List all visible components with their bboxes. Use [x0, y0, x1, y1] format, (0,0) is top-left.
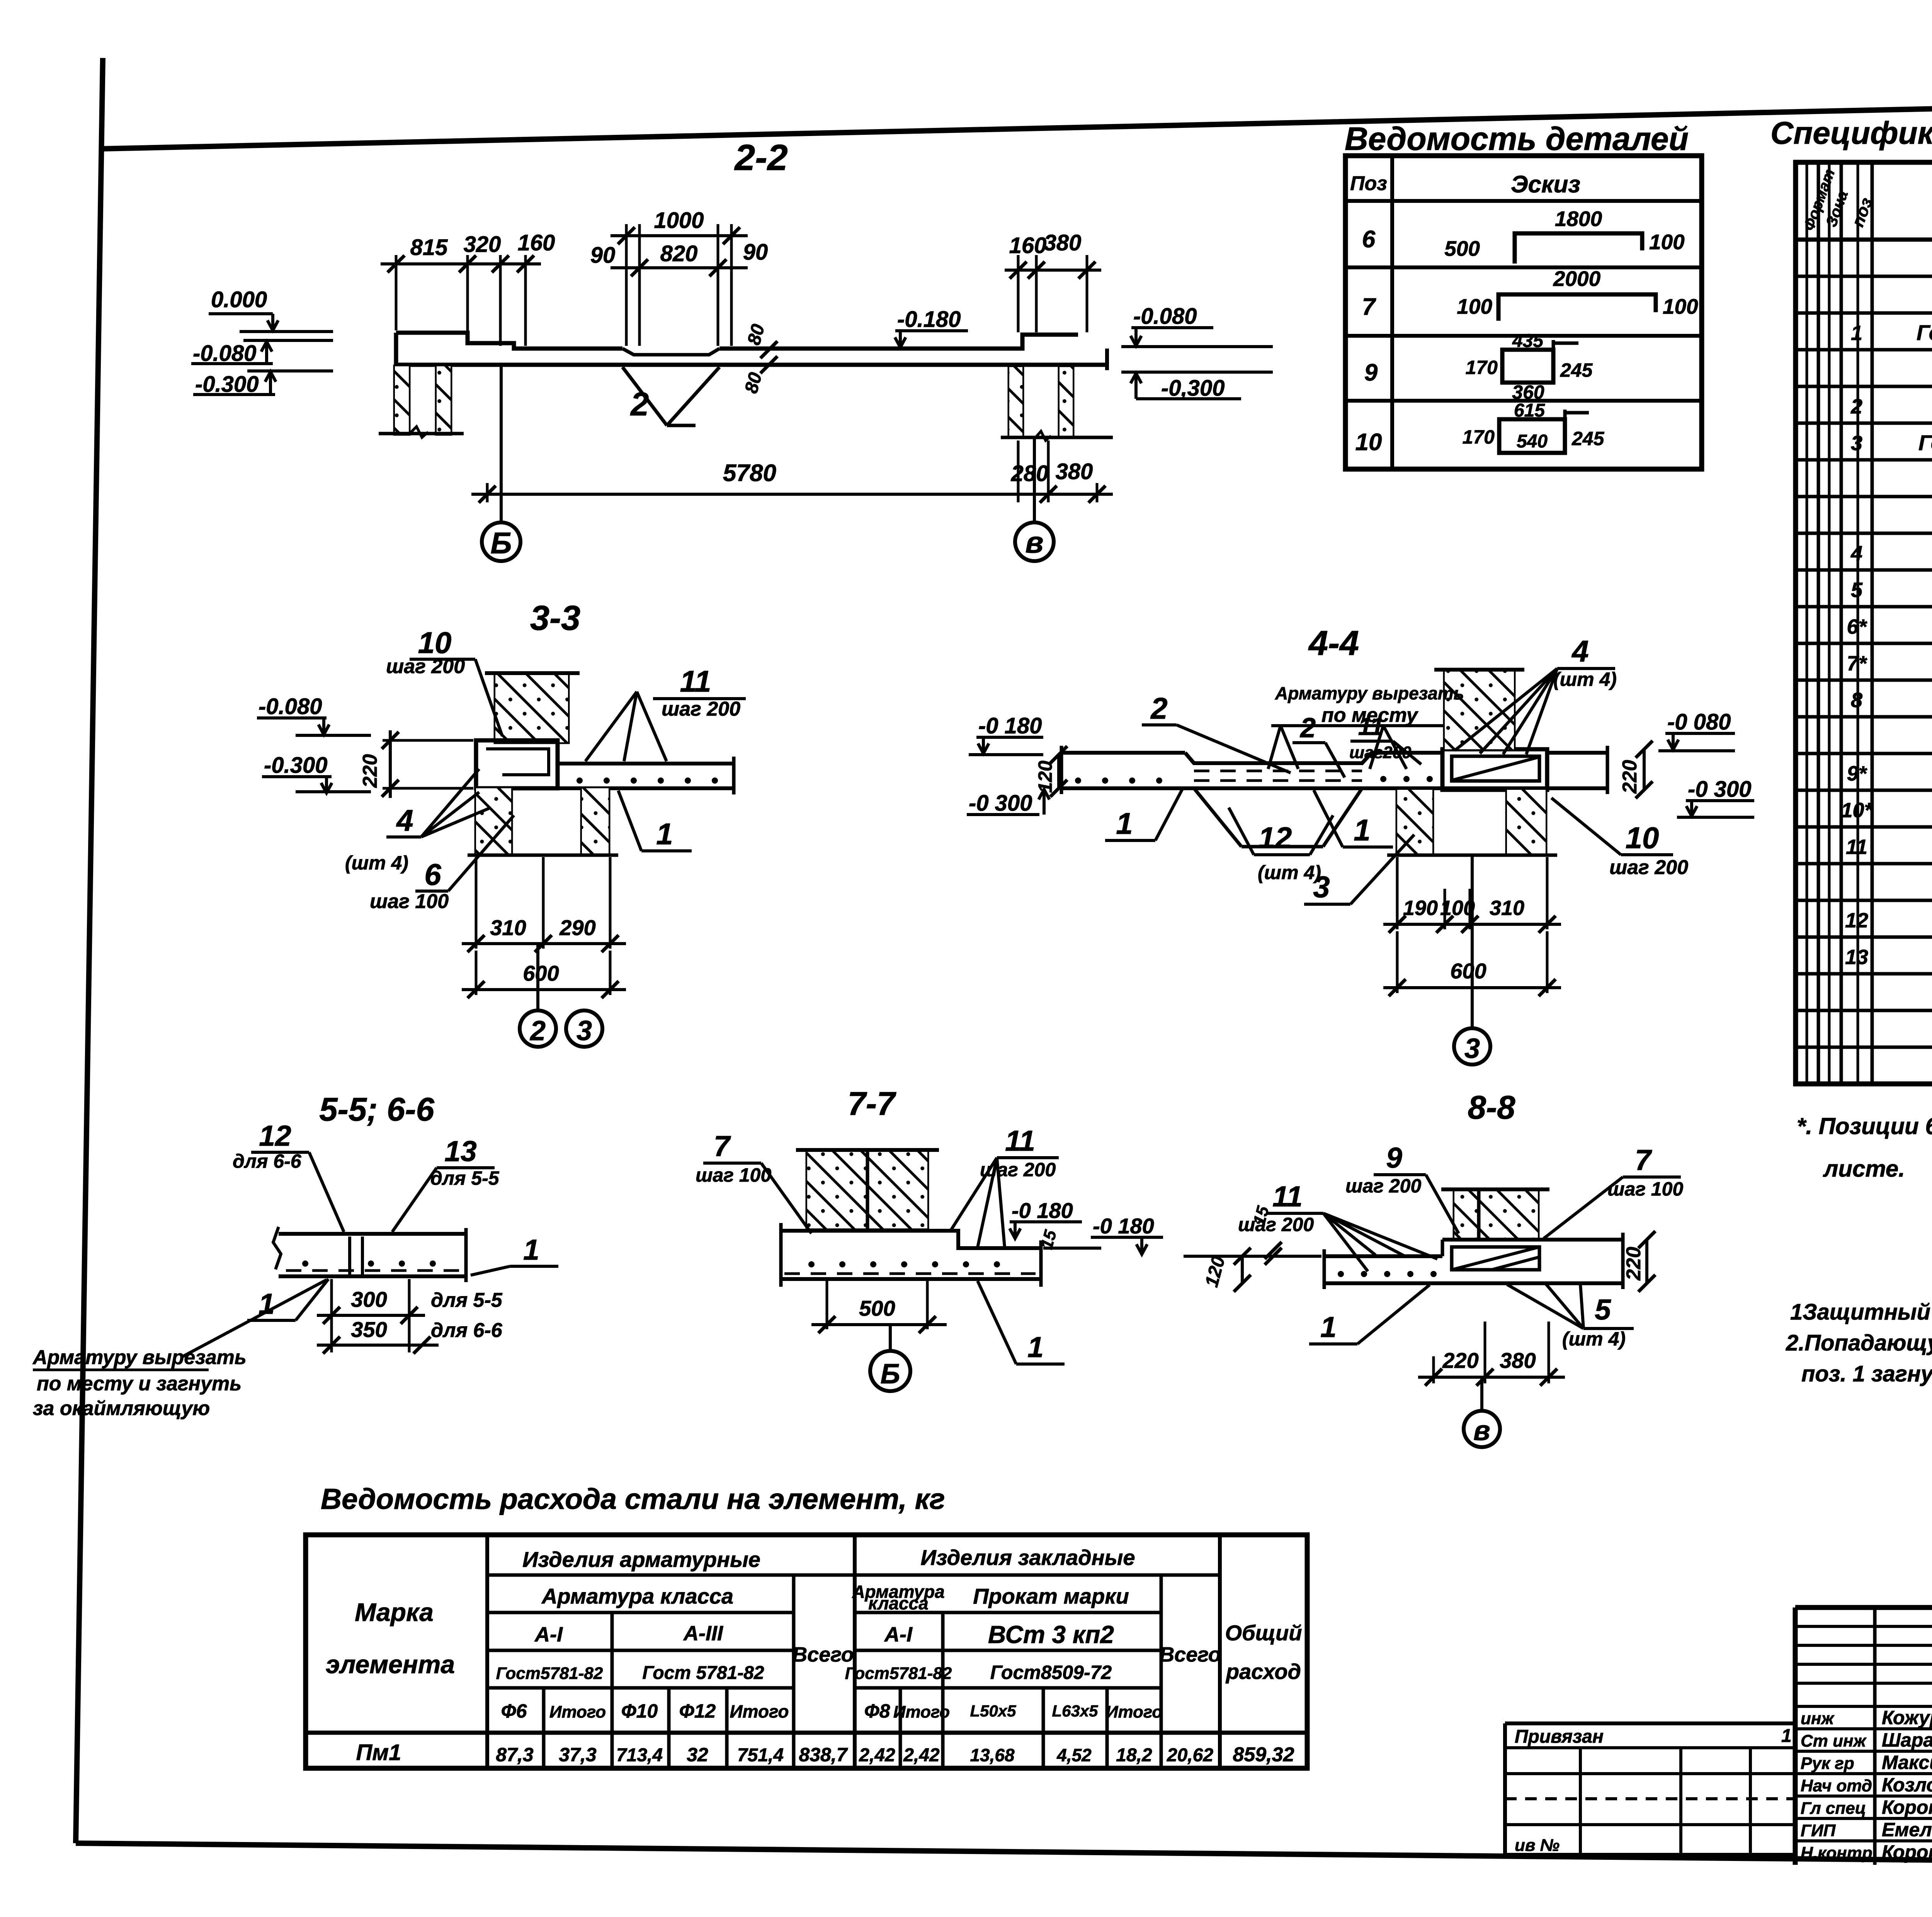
svg-text:Б: Б — [881, 1359, 900, 1390]
svg-text:713,4: 713,4 — [616, 1745, 663, 1766]
svg-text:6: 6 — [1362, 226, 1376, 253]
dimension 160 380 (top right) — [1005, 230, 1101, 332]
label 5 sht 4 — [1507, 1284, 1634, 1350]
svg-text:3: 3 — [1851, 432, 1862, 455]
svg-text:380: 380 — [1056, 459, 1093, 484]
svg-text:Максимов: Максимов — [1882, 1752, 1932, 1773]
section 8-8 beam with opening — [1442, 1233, 1623, 1289]
svg-text:1: 1 — [1116, 806, 1133, 840]
spec row pos 6 — [1847, 614, 1932, 638]
svg-text:300: 300 — [351, 1287, 387, 1311]
svg-text:А-І: А-І — [534, 1623, 563, 1646]
svg-text:Гл спец: Гл спец — [1801, 1799, 1866, 1818]
label 12 dlya 6-6 — [233, 1119, 344, 1232]
svg-text:380: 380 — [1500, 1348, 1536, 1373]
svg-text:ГИП: ГИП — [1801, 1821, 1836, 1840]
svg-text:1: 1 — [523, 1233, 539, 1266]
svg-text:100: 100 — [1663, 294, 1698, 318]
label 11 shag 200 (7-7) — [951, 1124, 1059, 1247]
section 3-3 slab — [476, 757, 734, 794]
svg-text:310: 310 — [1490, 896, 1524, 920]
svg-text:ВСт 3 кп2: ВСт 3 кп2 — [988, 1621, 1114, 1648]
svg-text:Рук гр: Рук гр — [1801, 1754, 1854, 1773]
svg-text:Пм1: Пм1 — [356, 1740, 401, 1765]
svg-text:11: 11 — [1358, 713, 1384, 740]
svg-text:4,52: 4,52 — [1056, 1745, 1092, 1765]
steel header gost row — [496, 1662, 1112, 1683]
svg-text:3: 3 — [577, 1015, 592, 1046]
svg-text:1800: 1800 — [1555, 207, 1602, 231]
svg-text:Эскиз: Эскиз — [1511, 171, 1580, 198]
steel table header Marka elementa — [326, 1598, 455, 1679]
svg-text:2: 2 — [1850, 395, 1862, 418]
svg-text:310: 310 — [490, 915, 526, 940]
page frame bottom border — [76, 1843, 1932, 1866]
svg-text:1000: 1000 — [654, 208, 704, 233]
svg-text:2.Попадающую в отверстие арм: 2.Попадающую в отверстие арматуру — [1786, 1330, 1932, 1356]
svg-text:Изделия закладные: Изделия закладные — [920, 1545, 1135, 1570]
svg-text:шаг 200: шаг 200 — [1609, 856, 1688, 879]
svg-text:280: 280 — [1011, 461, 1049, 486]
label 11 shag 200 (4-4) — [1349, 713, 1421, 764]
steel table grid — [306, 1535, 1307, 1768]
svg-text:Гост 8509-72: Гост 8509-72 — [1918, 430, 1932, 455]
dimension 310 290 (3-3) — [462, 857, 626, 952]
svg-text:для 6-6: для 6-6 — [233, 1150, 302, 1172]
svg-text:(шт 4): (шт 4) — [345, 852, 408, 874]
parts list table grid — [1345, 156, 1702, 469]
svg-text:Козлов: Козлов — [1882, 1774, 1932, 1796]
svg-text:-0.300: -0.300 — [264, 753, 327, 778]
svg-text:615: 615 — [1514, 400, 1545, 421]
label 1 (5-5 right) — [471, 1233, 558, 1275]
svg-text:3-3: 3-3 — [530, 599, 580, 638]
svg-text:4-4: 4-4 — [1308, 624, 1359, 663]
svg-text:-0 080: -0 080 — [1667, 709, 1731, 735]
svg-text:540: 540 — [1517, 431, 1548, 452]
svg-text:Гост5781-82: Гост5781-82 — [845, 1664, 952, 1683]
section 3-3 piers (hatched) — [468, 788, 618, 855]
svg-text:Гост8509-72: Гост8509-72 — [990, 1662, 1112, 1683]
section 2-2 axis line B — [500, 365, 503, 522]
svg-text:для 5-5: для 5-5 — [431, 1289, 503, 1311]
svg-text:Коротун: Коротун — [1882, 1841, 1932, 1863]
spec row pos 12 — [1845, 908, 1932, 932]
label 13 dlya 5-5 — [392, 1135, 500, 1232]
svg-text:12: 12 — [1845, 909, 1868, 932]
svg-text:-0 180: -0 180 — [1093, 1214, 1154, 1238]
dimension 190 100 310 (4-4) — [1383, 857, 1561, 933]
svg-text:820: 820 — [660, 241, 698, 266]
privyazan table — [1505, 1723, 1795, 1855]
level mark -0300 (4-4 left) — [967, 789, 1049, 816]
section 3-3 axis circles 2 3 — [520, 944, 602, 1047]
svg-text:Гост 5781-82: Гост 5781-82 — [642, 1663, 764, 1683]
dimension 220 (4-4 right) — [1619, 741, 1653, 798]
svg-text:7-7: 7-7 — [848, 1085, 897, 1122]
svg-text:Поз: Поз — [1350, 172, 1387, 195]
svg-text:360: 360 — [1512, 381, 1544, 403]
svg-text:170: 170 — [1463, 426, 1495, 448]
svg-text:6*: 6* — [1847, 615, 1867, 638]
label 1 (5-5 left) — [247, 1279, 328, 1320]
level mark -0 080 (4-4 right) — [1658, 709, 1735, 751]
svg-text:7: 7 — [1635, 1144, 1652, 1176]
svg-text:Итого: Итого — [893, 1703, 950, 1721]
svg-text:А-ІІІ: А-ІІІ — [683, 1622, 723, 1645]
level mark -0.300 left — [193, 371, 333, 397]
label 1 (4-4 mid) — [1314, 790, 1393, 847]
svg-text:Итого: Итого — [549, 1703, 606, 1721]
dimension 120 (8-8) — [1201, 1248, 1251, 1292]
level mark 0.000 — [209, 287, 333, 332]
svg-text:7: 7 — [1362, 294, 1376, 320]
svg-text:Итого: Итого — [730, 1701, 789, 1721]
label armaturu vyrezat po mestu — [1268, 683, 1464, 769]
label 6 shag 100 — [370, 815, 514, 913]
level mark -0 180 (8-8) — [1091, 1214, 1321, 1256]
svg-text:Общий: Общий — [1225, 1621, 1302, 1645]
svg-text:класса: класса — [868, 1593, 928, 1613]
svg-text:7: 7 — [714, 1130, 731, 1162]
svg-text:Ведомость деталей: Ведомость деталей — [1345, 121, 1689, 157]
svg-text:2: 2 — [1299, 713, 1316, 743]
svg-text:в: в — [1473, 1415, 1490, 1446]
svg-text:160: 160 — [518, 230, 555, 255]
page frame left border — [76, 58, 103, 1843]
parts list row 6 — [1362, 207, 1685, 264]
svg-text:1: 1 — [656, 817, 673, 851]
svg-text:-0 300: -0 300 — [1688, 777, 1751, 802]
svg-text:Арматуру вырезать: Арматуру вырезать — [1275, 683, 1464, 703]
svg-text:2: 2 — [630, 386, 649, 423]
page frame top border — [102, 94, 1932, 149]
svg-text:Шарапова: Шарапова — [1882, 1729, 1932, 1751]
svg-text:10*: 10* — [1841, 799, 1873, 822]
svg-text:по месту и загнуть: по месту и загнуть — [37, 1373, 241, 1395]
spec row pos 1 — [1851, 311, 1932, 345]
svg-text:-0.080: -0.080 — [1133, 304, 1197, 329]
steel header diameters row — [501, 1700, 1163, 1722]
section 2-2 left pier — [379, 366, 464, 437]
section 5-5 slab — [273, 1227, 466, 1282]
label 4 sht 4 (3-3) — [345, 769, 491, 874]
svg-text:10: 10 — [1355, 429, 1382, 456]
svg-text:Привязан: Привязан — [1515, 1726, 1604, 1747]
note armaturu vyrezat (5-5) — [32, 1280, 327, 1420]
svg-text:для 5-5: для 5-5 — [430, 1167, 500, 1189]
svg-text:220: 220 — [1619, 760, 1641, 794]
svg-text:100: 100 — [1440, 896, 1475, 920]
label 11 shag 200 — [585, 664, 746, 761]
label 2 (4-4 left) — [1142, 691, 1291, 773]
svg-text:90: 90 — [590, 243, 616, 268]
svg-text:350: 350 — [351, 1317, 387, 1342]
svg-text:220: 220 — [1442, 1348, 1478, 1373]
svg-text:-0 180: -0 180 — [1012, 1198, 1073, 1223]
svg-text:L63х5: L63х5 — [1052, 1702, 1098, 1720]
svg-text:Гост5781-82: Гост5781-82 — [496, 1664, 603, 1683]
svg-text:11: 11 — [680, 664, 711, 698]
svg-text:элемента: элемента — [326, 1650, 455, 1679]
svg-text:шаг 200: шаг 200 — [1238, 1214, 1314, 1235]
svg-text:245: 245 — [1560, 359, 1593, 381]
section 4-4 piers (hatched) — [1387, 790, 1557, 855]
specification table grid — [1796, 162, 1932, 1084]
svg-text:160: 160 — [1009, 233, 1047, 258]
svg-text:расход: расход — [1225, 1659, 1301, 1684]
svg-text:Коротун: Коротун — [1882, 1796, 1932, 1818]
label 7 shag 100 (7-7) — [696, 1130, 811, 1233]
svg-text:5: 5 — [1851, 578, 1863, 602]
svg-text:Ф6: Ф6 — [501, 1700, 527, 1722]
svg-text:9*: 9* — [1847, 762, 1867, 785]
steel header armatura klassa right — [852, 1582, 944, 1613]
svg-text:1: 1 — [1781, 1726, 1792, 1746]
label 1 (7-7) — [978, 1281, 1065, 1364]
svg-text:120: 120 — [1034, 760, 1056, 793]
dimension 280 380 (bottom right) — [1011, 441, 1093, 503]
section 8-8 slab — [1324, 1249, 1623, 1289]
dimension 300 dlya 5-5 — [317, 1279, 503, 1352]
spec row pos 7 — [1847, 651, 1932, 675]
svg-text:9: 9 — [1364, 359, 1378, 386]
svg-text:2-2: 2-2 — [734, 137, 787, 178]
svg-text:320: 320 — [464, 232, 501, 257]
svg-text:шаг200: шаг200 — [1349, 743, 1412, 762]
svg-text:(шт 4): (шт 4) — [1562, 1328, 1626, 1350]
svg-text:2,42: 2,42 — [859, 1745, 895, 1766]
steel data row — [356, 1740, 1294, 1766]
svg-text:Ф12: Ф12 — [679, 1700, 716, 1722]
svg-text:(шт 4): (шт 4) — [1258, 862, 1321, 883]
svg-text:9: 9 — [1386, 1141, 1402, 1174]
svg-text:-0.180: -0.180 — [897, 307, 961, 332]
svg-text:10: 10 — [1626, 821, 1659, 855]
spec row pos 3 — [1851, 427, 1932, 455]
dimension 600 (3-3) — [462, 951, 626, 998]
svg-text:1: 1 — [1851, 321, 1862, 345]
title block rows (roles and names) — [1801, 1707, 1932, 1863]
svg-text:815: 815 — [410, 235, 448, 260]
svg-text:1Защитный слой бетона 15мм: 1Защитный слой бетона 15мм — [1790, 1300, 1932, 1325]
svg-text:-0 180: -0 180 — [978, 713, 1042, 738]
level mark -0.080 left — [191, 340, 333, 366]
svg-text:2000: 2000 — [1553, 267, 1601, 291]
dimension 815 320 160 — [381, 230, 555, 346]
label 7 shag 100 (8-8) — [1544, 1144, 1683, 1238]
svg-text:-0.080: -0.080 — [259, 694, 322, 719]
label 9 shag 200 — [1345, 1141, 1459, 1233]
steel header obschiy raskhod — [1225, 1621, 1302, 1684]
label 1 (8-8) — [1309, 1285, 1430, 1344]
svg-text:Арматуру вырезать: Арматуру вырезать — [32, 1346, 247, 1369]
svg-text:600: 600 — [523, 961, 559, 985]
level mark -0 300 (4-4 right) — [1677, 777, 1754, 817]
level mark -0.300 (3-3) — [262, 753, 371, 793]
section 7-7 wall (hatched) — [796, 1150, 939, 1228]
svg-text:190: 190 — [1403, 896, 1438, 920]
svg-text:Б: Б — [490, 526, 512, 560]
label 1 (3-3) — [618, 791, 692, 851]
svg-text:838,7: 838,7 — [799, 1744, 848, 1766]
dimension 120 (4-4 left) — [1034, 746, 1067, 797]
section 2-2 right pier — [1001, 367, 1113, 441]
svg-text:751,4: 751,4 — [737, 1745, 784, 1766]
svg-text:10: 10 — [418, 626, 452, 660]
svg-text:20,62: 20,62 — [1167, 1745, 1213, 1766]
section 8-8 axis circle V — [1464, 1377, 1500, 1447]
parts list row 10 — [1355, 400, 1605, 456]
svg-text:170: 170 — [1466, 357, 1498, 378]
section 2-2 slab profile — [396, 333, 1107, 370]
svg-text:11: 11 — [1846, 835, 1867, 859]
svg-text:1: 1 — [1027, 1331, 1044, 1363]
title block outline — [1795, 1607, 1932, 1865]
svg-text:0.000: 0.000 — [211, 287, 267, 312]
section 7-7 axis circle B — [870, 1325, 910, 1391]
svg-text:Итого: Итого — [1106, 1703, 1162, 1721]
svg-text:90: 90 — [743, 240, 768, 265]
svg-text:в: в — [1025, 525, 1043, 559]
svg-text:Ведомость расхода стали на: Ведомость расхода стали на элемент, кг — [321, 1483, 945, 1515]
svg-text:4: 4 — [396, 803, 413, 837]
section 8-8 wall (hatched) — [1441, 1189, 1549, 1240]
dimension 220 (3-3) — [359, 730, 473, 798]
svg-text:шаг 200: шаг 200 — [386, 655, 465, 678]
label 2 (4-4 mid) — [1293, 713, 1345, 777]
section 2-2 recess leader 2 — [622, 367, 719, 425]
level mark -0 180 (7-7) — [1010, 1198, 1101, 1248]
svg-text:3: 3 — [1313, 870, 1330, 904]
svg-text:859,32: 859,32 — [1233, 1744, 1294, 1766]
svg-text:5780: 5780 — [723, 460, 776, 486]
section 3-3 wall (hatched) — [485, 673, 580, 742]
svg-text:245: 245 — [1571, 428, 1605, 449]
svg-text:290: 290 — [559, 915, 595, 940]
svg-text:6: 6 — [424, 857, 441, 891]
svg-text:Изделия арматурные: Изделия арматурные — [522, 1547, 760, 1572]
svg-text:поз. 1 загнуть за окаймляющу: поз. 1 загнуть за окаймляющую — [1801, 1361, 1932, 1386]
section 4-4 slab — [1061, 746, 1607, 794]
parts list row 7 — [1362, 267, 1698, 321]
parts list row 9 — [1364, 331, 1593, 403]
dimension 1000 / 90 820 90 — [590, 208, 768, 346]
svg-text:435: 435 — [1512, 331, 1544, 351]
svg-text:4: 4 — [1571, 634, 1588, 668]
spec row pos 2 — [1850, 394, 1932, 418]
svg-text:Спецификация монолитной плит: Спецификация монолитной плиты Пм1 — [1770, 116, 1932, 151]
svg-text:11: 11 — [1005, 1124, 1035, 1157]
svg-text:(шт 4): (шт 4) — [1553, 668, 1617, 690]
section 4-4 under-channel trapezoid — [1194, 788, 1362, 847]
svg-text:Ф8: Ф8 — [864, 1700, 890, 1722]
svg-text:13: 13 — [444, 1135, 476, 1167]
svg-text:Нач отд: Нач отд — [1801, 1776, 1872, 1795]
svg-text:1: 1 — [1354, 813, 1370, 847]
section 7-7 slab — [781, 1223, 1041, 1287]
dimension 220 right (8-8) — [1622, 1231, 1655, 1292]
svg-text:-0 300: -0 300 — [969, 791, 1032, 816]
svg-text:шаг 100: шаг 100 — [696, 1164, 771, 1186]
svg-text:шаг 200: шаг 200 — [1345, 1175, 1421, 1197]
svg-text:2: 2 — [529, 1015, 546, 1046]
svg-text:ив №: ив № — [1515, 1836, 1560, 1855]
section 4-4 wall (hatched) — [1434, 670, 1524, 749]
level mark -0.080 right — [1121, 304, 1273, 347]
svg-text:Кожура: Кожура — [1882, 1707, 1932, 1728]
svg-text:100: 100 — [1457, 294, 1492, 318]
label 10 shag 200 — [386, 626, 502, 736]
svg-text:2,42: 2,42 — [903, 1745, 940, 1766]
svg-text:Всего: Всего — [1159, 1643, 1221, 1666]
svg-text:8-8: 8-8 — [1468, 1089, 1516, 1126]
svg-text:за окаймляющую: за окаймляющую — [33, 1397, 210, 1420]
svg-text:600: 600 — [1450, 959, 1486, 983]
level mark -0.300 right — [1121, 372, 1273, 401]
svg-text:Емельянов: Емельянов — [1882, 1819, 1932, 1840]
label 1 (4-4 left) — [1105, 789, 1182, 840]
label 10 shag 200 (4-4) — [1551, 798, 1688, 879]
section 4-4 right beam box — [1442, 749, 1547, 790]
section 4-4 right slab tail — [1547, 746, 1607, 794]
spec row pos 9 — [1847, 761, 1932, 785]
label 3 leader (4-4) — [1304, 835, 1414, 904]
svg-text:4: 4 — [1850, 542, 1862, 565]
svg-text:37,3: 37,3 — [559, 1744, 597, 1766]
svg-text:220: 220 — [1622, 1247, 1645, 1281]
svg-text:Ст инж: Ст инж — [1801, 1732, 1867, 1750]
label 11 shag 200 (8-8) — [1238, 1180, 1437, 1271]
label 4 sht 4 (4-4) — [1455, 634, 1617, 754]
dimension 220 380 (8-8) — [1418, 1322, 1565, 1386]
section 2-2 axis circle V — [1015, 522, 1054, 561]
spec row pos 11 — [1846, 834, 1932, 859]
svg-text:3: 3 — [1464, 1033, 1480, 1064]
section 2-2 axis line V — [1033, 437, 1036, 522]
svg-text:12: 12 — [259, 1119, 291, 1152]
svg-text:11: 11 — [1272, 1180, 1303, 1213]
svg-text:18,2: 18,2 — [1116, 1745, 1152, 1766]
level mark -0180 (4-4 left) — [969, 713, 1043, 755]
svg-text:L50х5: L50х5 — [970, 1702, 1016, 1720]
svg-text:87,3: 87,3 — [496, 1744, 534, 1766]
label 12 sht 4 — [1229, 808, 1333, 883]
svg-text:220: 220 — [359, 754, 381, 788]
svg-text:-0,300: -0,300 — [1161, 376, 1225, 401]
slab thickness 80 marks — [741, 322, 777, 396]
svg-text:380: 380 — [1044, 230, 1082, 255]
svg-text:5: 5 — [1595, 1293, 1611, 1326]
svg-text:5-5; 6-6: 5-5; 6-6 — [319, 1091, 434, 1128]
spec row pos 13 — [1845, 944, 1932, 969]
svg-text:32: 32 — [687, 1744, 708, 1766]
svg-text:листе.: листе. — [1823, 1156, 1905, 1182]
spec row pos 5 — [1851, 577, 1932, 602]
dimension 600 (4-4) — [1383, 931, 1561, 996]
svg-text:500: 500 — [859, 1296, 895, 1320]
svg-text:шаг 100: шаг 100 — [370, 890, 449, 913]
svg-text:8: 8 — [1851, 689, 1862, 712]
svg-text:Всего: Всего — [792, 1643, 854, 1666]
level mark -0.180 — [895, 307, 968, 347]
svg-text:Прокат марки: Прокат марки — [973, 1584, 1129, 1608]
svg-text:А-І: А-І — [884, 1623, 913, 1646]
svg-text:Марка: Марка — [355, 1598, 434, 1626]
svg-text:Гост 23279-85: Гост 23279-85 — [1917, 320, 1932, 345]
svg-text:13: 13 — [1845, 946, 1868, 969]
dimension 15 (8-8) — [1250, 1204, 1282, 1265]
